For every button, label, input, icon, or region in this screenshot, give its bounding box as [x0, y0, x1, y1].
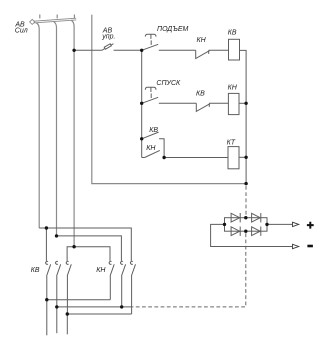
svg-text:ПОДЪЕМ: ПОДЪЕМ	[157, 26, 189, 33]
svg-text:КВ: КВ	[31, 267, 40, 274]
svg-text:КН: КН	[228, 84, 238, 91]
svg-text:КН: КН	[146, 145, 156, 152]
svg-text:СПУСК: СПУСК	[156, 80, 181, 87]
svg-text:КВ: КВ	[196, 91, 205, 98]
svg-text:КВ: КВ	[228, 30, 237, 37]
svg-text:Сил: Сил	[15, 28, 28, 35]
svg-text:КН: КН	[96, 267, 106, 274]
svg-text:КН: КН	[197, 37, 207, 44]
svg-text:КТ: КТ	[227, 140, 236, 147]
svg-text:упр.: упр.	[101, 34, 115, 41]
svg-text:КВ: КВ	[149, 127, 158, 134]
